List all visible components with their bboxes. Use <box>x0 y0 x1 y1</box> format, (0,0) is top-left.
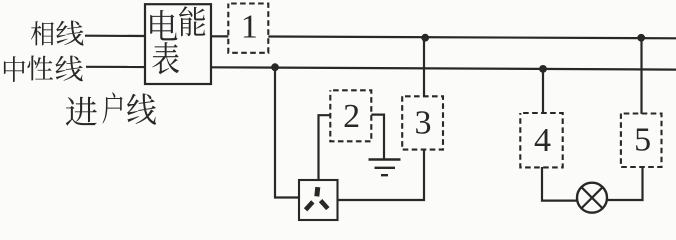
svg-text:2: 2 <box>343 98 360 135</box>
svg-text:1: 1 <box>241 8 258 45</box>
svg-text:4: 4 <box>534 122 551 159</box>
svg-text:3: 3 <box>415 105 432 142</box>
svg-text:5: 5 <box>634 122 651 159</box>
